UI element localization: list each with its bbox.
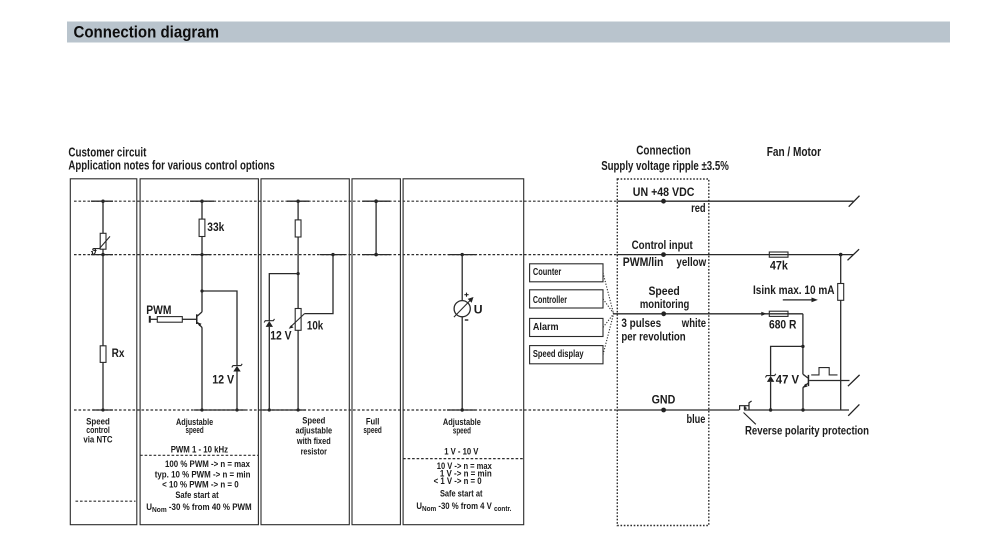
dotted connector alarm [603,314,614,327]
wire: voltmeter to GND bus [461,317,463,410]
svg-text:resistor: resistor [301,446,328,456]
wire: bus1 to fixed resistor [297,201,299,220]
reverse polarity pointer line [744,413,756,425]
svg-text:Control input: Control input [632,238,693,252]
svg-text:speed: speed [453,425,471,435]
wire: zener to GND (box3) [268,327,270,410]
box 2 (adjustable speed PWM) [140,179,258,525]
solid overlap GND at Rx [93,409,113,411]
box 4 (full speed) [352,179,400,525]
transistor Q1 collector slant [197,312,202,316]
wire: GND row right [744,409,849,411]
slash base row [848,375,860,386]
voltmeter arrow [454,300,471,317]
svg-text:47k: 47k [770,258,788,272]
junction dot GND/zener12 [235,408,238,411]
wire: wiper to bus2 [305,255,334,314]
wire: Q2 emitter to GND [802,387,804,410]
alarm box [530,318,603,336]
svg-text:10k: 10k [307,318,323,332]
svg-text:via NTC: via NTC [83,435,113,445]
bus line GND (dashed) [74,409,617,411]
svg-text:PWM: PWM [146,303,171,317]
svg-text:12 V: 12 V [270,329,292,343]
junction dot bus2/wiper [331,253,334,256]
wire: NTC to bus2 [102,249,104,254]
solid overlap bus2 box4 [363,254,391,256]
wire: Q2 base output line [809,380,849,382]
wire: speed monitoring row [613,313,803,315]
voltmeter arrowhead [468,297,474,303]
potentiometer 10k wiper [290,314,305,328]
svg-text:12 V: 12 V [212,372,235,386]
svg-text:adjustable: adjustable [295,426,332,436]
solid overlap bus2 at 202 [193,254,211,256]
solid overlap bus1 at NTC [91,200,113,202]
junction dot GND/zener47 [769,408,772,411]
junction dot GND/Q1 [200,408,203,411]
wire: Isink branch upper [840,255,842,284]
wire: resistor to branch node [297,237,299,309]
svg-text:speed: speed [363,425,382,435]
svg-text:Customer circuit: Customer circuit [68,146,147,160]
junction dot bus2/full speed [374,253,378,257]
box 5 (adjustable speed 1V-10V) [403,179,524,525]
reverse polarity protection symbol [739,401,752,410]
svg-text:100 % PWM -> n = max: 100 % PWM -> n = max [165,459,251,469]
svg-text:white: white [681,316,706,330]
junction dot bus1/box3 resistor [296,200,299,203]
box5 dashed divider [403,458,524,460]
transistor Q2 collector slant [803,374,808,378]
svg-text:typ. 10 % PWM -> n = min: typ. 10 % PWM -> n = min [155,470,251,480]
resistor 680R body [769,311,788,316]
wire: resistor to base [182,318,196,320]
wire: bus1 to 33k [201,201,203,219]
junction dot Isink branch [839,253,843,257]
reverse polarity protection diode triangle [744,406,748,410]
zener diode 12 V (box2) triangle [233,366,240,372]
voltmeter minus sign [465,319,469,321]
zener diode 12 V (box2) bar [232,364,242,368]
wire: GND row left [617,409,739,411]
node UN +48 VDC [661,199,666,204]
svg-text:blue: blue [687,412,706,426]
voltmeter U circle [454,301,470,317]
bus line UN+48VDC (dashed) [74,200,617,202]
svg-text:yellow: yellow [676,255,706,269]
zener diode 47 V triangle [767,376,774,382]
zener diode 12 V (box3) bar [264,319,274,323]
dotted connector speed display [603,314,614,355]
svg-text:Speed: Speed [302,415,325,425]
svg-text:680 R: 680 R [769,318,797,332]
wire: NTC branch upper [102,201,104,233]
wire: branch to zener 47V [771,346,803,375]
svg-text:PWM/lin: PWM/lin [623,255,664,269]
svg-text:Safe start at: Safe start at [175,490,218,500]
solid overlap bus1 box4 [363,200,391,202]
wire: pot to GND bus [297,330,299,410]
resistor 33k body [199,219,205,236]
slash row2 [848,249,860,260]
wire: bus2 to Rx [102,255,104,346]
wire: control input row [617,254,853,256]
svg-text:PWM 1 - 10 kHz: PWM 1 - 10 kHz [171,445,229,455]
svg-text:Safe start at: Safe start at [440,489,483,499]
solid overlap bus1 box3 [287,200,309,202]
svg-text:Application notes for various: Application notes for various control op… [68,159,274,173]
junction dot GND/voltmeter [461,408,464,411]
potentiometer 10k body [295,309,301,331]
wire: full speed link [375,201,377,254]
Isink arrowhead [812,298,818,303]
junction dot bus1/33k [200,200,203,203]
junction dot bus1/full speed [374,199,378,203]
NTC thermistor body [100,233,106,249]
solid overlap bus2 at wiper [320,254,345,256]
svg-text:33k: 33k [207,220,224,234]
junction dot bus2/Rx [101,253,104,256]
zener diode 12 V (box3) triangle [266,321,273,327]
solid overlap GND box5 [447,409,476,411]
title bar [67,22,950,43]
svg-text:red: red [691,201,706,215]
wire: emitter to GND bus [201,327,203,410]
wire: zener to GND bus [236,372,238,411]
transistor Q1 emitter slant [197,323,202,328]
svg-text:UN +48 VDC: UN +48 VDC [633,185,695,199]
box2 dashed divider [140,454,258,456]
PWM input terminal tick [149,316,151,323]
svg-text:Supply voltage ripple ±3.5%: Supply voltage ripple ±3.5% [601,159,729,173]
node GND [661,408,666,413]
svg-text:47 V: 47 V [776,372,800,386]
speed display box [530,346,603,364]
resistor Rx body [100,346,106,363]
svg-text:3 pulses: 3 pulses [621,316,661,330]
svg-text:Alarm: Alarm [533,322,559,333]
junction dot GND/zener box3 [268,408,271,411]
bus line control input (dashed) [74,254,617,256]
solid overlap GND box3 [261,409,306,411]
solid overlap bus2 box5 [448,254,476,256]
transistor Q1 emitter arrow (PNP) [198,322,202,326]
dotted connector counter [603,273,614,314]
wire: PWM input to resistor [150,318,158,320]
controller box [530,290,603,308]
svg-text:Reverse polarity protection: Reverse polarity protection [745,423,869,437]
connection box (dashed) [617,179,709,526]
resistor Isink body [838,284,844,301]
potentiometer wiper arrowhead [289,325,294,329]
wire: 33k to collector node [201,237,203,312]
transistor Q2 emitter slant [803,383,808,387]
dotted connector controller [603,299,614,314]
wire: branch to zener 12V [202,291,237,365]
junction dot zener branch [200,289,203,292]
fixed resistor body (box3) [295,220,301,237]
junction dot zener 47V branch [801,345,804,348]
Isink direction arrow [783,299,814,301]
wire: UN +48 VDC row [617,200,853,202]
svg-text:Isink max. 10 mA: Isink max. 10 mA [753,283,835,297]
wire: speed line down to Q2 [802,314,804,374]
wire: branch to zener 12V (box3) [269,274,298,321]
voltmeter plus sign [464,293,468,297]
solid overlap GND box2 [194,409,245,411]
svg-text:< 1 V -> n = 0: < 1 V -> n = 0 [434,476,482,486]
svg-text:ϑ: ϑ [91,247,97,258]
node control input [661,252,666,257]
junction dot zener branch (box3) [297,272,300,275]
wire: zener 47V to GND [770,382,772,410]
svg-text:Controller: Controller [533,295,567,306]
slash GND row [848,404,859,415]
svg-text:GND: GND [652,393,676,407]
pulse waveform symbol [811,368,837,375]
transistor Q1 base bar [196,314,198,324]
svg-text:Fan / Motor: Fan / Motor [767,145,821,159]
box 3 (speed adjustable with fixed resistor) [261,179,349,525]
svg-text:Connection diagram: Connection diagram [74,23,220,41]
svg-text:per revolution: per revolution [621,330,685,344]
node speed monitoring [661,311,666,316]
junction dot GND/Q2 [801,408,804,411]
resistor 47k body [769,252,788,257]
svg-text:Speed display: Speed display [533,349,584,360]
junction dot GND/Rx [101,408,104,411]
junction dot bus1/NTC [101,200,104,203]
transistor Q2 base bar [808,375,810,386]
box 1 (speed control via NTC) [70,179,137,525]
svg-text:Connection: Connection [636,144,691,158]
junction dot bus2 crossing [200,253,203,256]
junction dot GND/pot [297,408,300,411]
solid overlap bus1 at 33k [190,200,214,202]
svg-text:Counter: Counter [533,267,562,278]
PWM series resistor body [157,317,182,323]
zener diode 47 V bar [765,374,775,378]
svg-text:monitoring: monitoring [640,297,690,311]
slash row1 [849,196,860,207]
svg-text:Rx: Rx [112,346,125,360]
svg-text:1 V - 10 V: 1 V - 10 V [444,447,479,457]
box1 lower dashed divider [76,500,136,502]
speed line arrowhead [761,312,766,316]
junction dot bus2/voltmeter [461,253,464,256]
svg-text:< 10 % PWM -> n = 0: < 10 % PWM -> n = 0 [162,480,239,490]
svg-text:U: U [474,302,483,316]
counter box [530,264,603,282]
wire: Rx to GND bus [102,362,104,410]
svg-text:with fixed: with fixed [296,436,331,446]
svg-text:speed: speed [186,425,204,435]
wire: Isink branch lower [840,300,842,410]
transistor Q2 emitter arrow (NPN) [803,384,807,388]
wire: bus2 to voltmeter [461,255,463,301]
solid overlap bus2 at Rx [91,254,113,256]
NTC thermistor diagonal [94,236,110,248]
